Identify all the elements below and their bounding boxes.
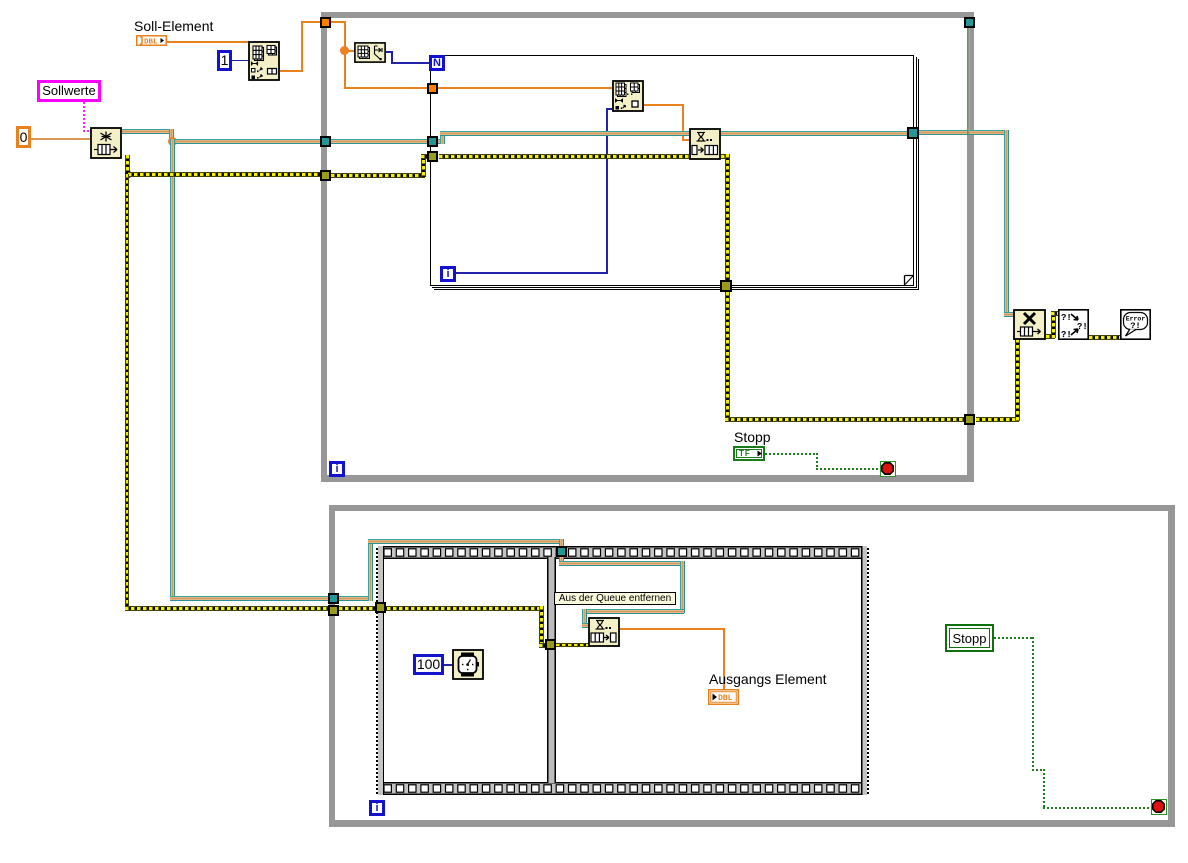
wire: for-loop orange tunnel to index-array node (orange) xyxy=(438,87,612,89)
wire: error to loop1 left tunnel (error) xyxy=(128,172,321,177)
constant: 0 (orange) xyxy=(16,126,31,148)
wire: dequeue element out to Ausgangs Element (orange) xyxy=(620,628,725,690)
wire: queue inside for loop through enqueue (queue) xyxy=(438,131,908,144)
while loop 1 border xyxy=(321,12,974,482)
tunnel: teal queue on loop1 left xyxy=(320,136,331,147)
wire: error divider tunnel to dequeue (error) xyxy=(556,643,589,648)
for loop shadow line right 2 xyxy=(918,59,919,290)
wire: queue inside sequence frame 2 wrap to dequeue (queue) xyxy=(559,557,685,628)
sequence structure bottom border (film strip) xyxy=(376,782,869,795)
wire: Soll-Element DBL array to node1 (orange) xyxy=(167,41,249,43)
svg-text:?!: ?! xyxy=(1130,321,1140,331)
tunnel: olive error on loop2 left xyxy=(328,605,339,616)
node U6: Release Queue xyxy=(1013,309,1046,340)
for loop shadow line right 1 xyxy=(916,57,917,288)
sequence structure left border xyxy=(376,546,384,795)
wire: queue to loop1 left tunnel (queue) xyxy=(172,139,321,144)
wire: error branch down to loop2 (error) xyxy=(125,174,330,610)
wire: obtain queue error out down to junction (error) xyxy=(125,155,130,174)
tunnel: teal queue on for-loop right xyxy=(907,127,919,139)
node U4: Array Subset xyxy=(612,80,644,112)
wire: queue inside loop1 to for loop (queue) xyxy=(331,139,428,144)
tunnel: olive error on loop1 left xyxy=(320,170,331,181)
tunnel: orange on for-loop left xyxy=(427,83,438,94)
terminal: N count of for loop xyxy=(429,55,445,71)
for loop shadow line bottom 2 xyxy=(434,289,919,290)
wire: loop1 tunnel to array-size and for-loop tunnel (orange, with junction) xyxy=(330,21,429,90)
for loop border xyxy=(430,55,914,286)
tunnel: teal queue on loop1 top-right xyxy=(964,17,975,28)
sequence frame divider xyxy=(547,557,556,783)
node U10: Dequeue Element xyxy=(588,617,620,647)
wire: constant 0 to obtain queue (orange thin) xyxy=(31,138,90,140)
terminal: loop1 stop condition button xyxy=(880,461,896,477)
wire: error inside loop1 to for loop (error) xyxy=(331,154,429,177)
wire: obtain queue output with branch junction (queue) xyxy=(122,129,177,145)
node U5: Enqueue Element xyxy=(689,128,721,160)
while loop 2 border xyxy=(329,505,1175,827)
junction dot on error wire xyxy=(125,171,132,178)
wire: error outside loop1 up to release queue (error) xyxy=(976,339,1019,421)
tunnel: olive error on sequence divider xyxy=(545,639,556,650)
node U2: Obtain Queue xyxy=(90,127,122,159)
tunnel: olive error on for-loop left xyxy=(427,151,438,162)
wire: queue branch down to loop2 (queue) xyxy=(170,139,331,601)
terminal: i iteration of for loop xyxy=(440,266,456,282)
label: Aus der Queue entfernen xyxy=(554,592,676,605)
wire: queue from for loop right tunnel to release queue (queue) xyxy=(919,130,1014,317)
for loop dog-ear corner xyxy=(904,275,913,284)
svg-text:DBL: DBL xyxy=(144,38,158,46)
sequence structure top border (film strip) xyxy=(376,546,869,559)
wire: node1 output to loop1 tunnel (orange) xyxy=(280,16,323,73)
tunnel: teal queue on for-loop left xyxy=(427,136,438,147)
node U9: Wait (ms) xyxy=(452,649,484,680)
wire: error inside for loop to enqueue (error) xyxy=(439,154,689,159)
junction dot on queue wire xyxy=(168,137,177,146)
terminal: Soll-Element array DBL control xyxy=(136,35,167,46)
wire: Stopp TF to loop condition (green dotted) xyxy=(765,453,881,470)
wire: Stopp local variable to loop2 condition (green dotted) xyxy=(994,637,1151,809)
wire: array size to N terminal (blue) xyxy=(386,51,430,65)
sequence structure right border xyxy=(861,546,869,795)
terminal: loop2 stop condition button xyxy=(1151,799,1167,815)
node U1: array function (Split/Replace 1D Array) xyxy=(248,41,280,81)
wire: queue into loop2 and up to sequence (queue) xyxy=(339,539,372,602)
tunnel: orange on loop1 top-left xyxy=(320,17,331,28)
tunnel: teal queue on sequence top border xyxy=(556,546,567,557)
label: Soll-Element xyxy=(134,19,213,34)
wire: constant 1 to node1 (blue) xyxy=(232,60,250,62)
node U3: Array Size xyxy=(354,42,386,63)
wire: Sollwerte label to obtain queue (magenta dotted) xyxy=(83,102,92,134)
label: Stopp (above TF terminal) xyxy=(734,430,771,445)
svg-text:?!: ?! xyxy=(1077,322,1088,332)
svg-text:DBL: DBL xyxy=(718,694,733,703)
terminal: i iteration of loop1 xyxy=(329,461,345,477)
wire: queue stub to loop1 top-right tunnel (queue) xyxy=(967,27,970,134)
wire: error below for loop to loop1 right tunnel (error) xyxy=(725,292,966,421)
local variable: Stopp (loop2) xyxy=(945,624,994,652)
tunnel: olive error on loop1 right xyxy=(964,414,975,425)
wire: error release queue to merge errors (error) xyxy=(1046,311,1059,338)
terminal: i iteration of loop2 xyxy=(369,800,385,816)
tunnel: olive error on sequence left border xyxy=(375,602,386,613)
for loop shadow line bottom 1 xyxy=(432,287,917,288)
terminal: Ausgangs Element DBL indicator xyxy=(708,689,739,705)
node U7: Merge Errors xyxy=(1058,309,1089,340)
wire: error merge errors to error handler (error) xyxy=(1089,335,1120,340)
wire: index-array output to enqueue element input (orange) xyxy=(644,104,689,141)
node U8: Simple Error Handler xyxy=(1120,309,1151,340)
wire: i terminal to index-array node (blue) xyxy=(456,108,612,274)
constant: 1 (blue) xyxy=(217,50,232,71)
wire: constant 100 to wait (blue) xyxy=(444,664,452,666)
label: Sollwerte (magenta local) xyxy=(37,80,101,102)
tunnel: olive error on for-loop bottom xyxy=(720,280,732,292)
wire: error inside loop2 frame1 to divider tunnel (error) xyxy=(339,606,549,647)
label: Ausgangs Element xyxy=(709,672,827,687)
constant: 100 (blue) xyxy=(413,654,444,675)
tunnel: teal queue on loop2 left xyxy=(328,593,339,604)
svg-text:?!: ?! xyxy=(1061,313,1072,323)
svg-text:?!: ?! xyxy=(1061,330,1072,340)
wire: error from enqueue down through for-loop bottom tunnel (error) xyxy=(721,154,729,294)
terminal: Stopp TF boolean xyxy=(733,446,765,461)
